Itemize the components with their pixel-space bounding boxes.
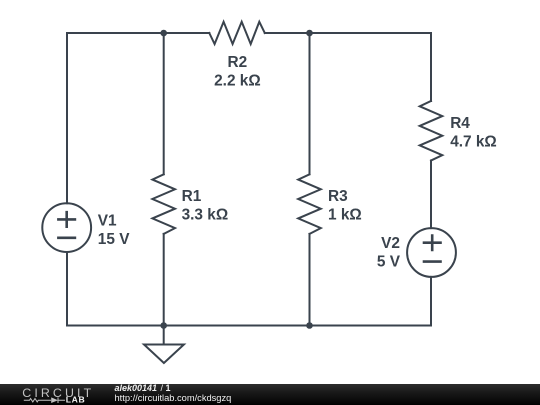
V1 plus sign (57, 211, 76, 228)
V1 minus sign (57, 237, 76, 240)
junction node top-right (306, 30, 313, 37)
wire left lower (66, 252, 68, 326)
wire bottom (67, 325, 431, 327)
V2 plus sign (423, 234, 442, 251)
svg-text:1 kΩ: 1 kΩ (328, 206, 362, 223)
junction node bottom-left (160, 322, 167, 329)
svg-text:5 V: 5 V (377, 253, 401, 270)
svg-text:V2: V2 (381, 235, 400, 252)
voltage source V2 circle (407, 228, 456, 277)
resistor R4 body (420, 101, 443, 161)
wire left upper (66, 33, 68, 203)
resistor R3 body (298, 174, 321, 234)
voltage source V1 circle (42, 203, 91, 252)
junction node top-left (160, 30, 167, 37)
junction node bottom-right (306, 322, 313, 329)
footer bar (0, 384, 540, 405)
resistor R1 body (152, 174, 175, 234)
resistor R2 body (209, 22, 264, 44)
CircuitLab logo diode (51, 397, 58, 403)
V2 minus sign (423, 260, 442, 263)
svg-text:V1: V1 (98, 213, 117, 230)
svg-text:R1: R1 (182, 188, 202, 205)
wire right middle (430, 161, 432, 229)
svg-text:R4: R4 (450, 115, 470, 132)
svg-text:15 V: 15 V (98, 231, 130, 248)
svg-text:R3: R3 (328, 188, 348, 205)
svg-text:4.7 kΩ: 4.7 kΩ (450, 133, 497, 150)
svg-text:3.3 kΩ: 3.3 kΩ (182, 206, 229, 223)
svg-text:alek00141: alek00141 (115, 384, 158, 393)
CircuitLab logo circuit line with resistor (24, 397, 65, 403)
wire right lower (430, 277, 432, 326)
wire top-left segment (67, 32, 209, 34)
svg-text:http://circuitlab.com/ckdsgzq: http://circuitlab.com/ckdsgzq (115, 393, 232, 403)
wire branch R1 lower (163, 234, 165, 326)
wire branch R3 lower (309, 234, 311, 326)
wire branch R1 upper (163, 33, 165, 174)
wire right upper (430, 33, 432, 101)
svg-text:2.2 kΩ: 2.2 kΩ (214, 72, 261, 89)
ground stub (163, 326, 165, 345)
wire branch R3 upper (309, 33, 311, 174)
svg-text:R2: R2 (228, 54, 248, 71)
ground triangle (144, 345, 184, 364)
svg-text:/ 1: / 1 (161, 384, 171, 393)
svg-text:LAB: LAB (66, 395, 85, 405)
wire top-right segment (265, 32, 431, 34)
